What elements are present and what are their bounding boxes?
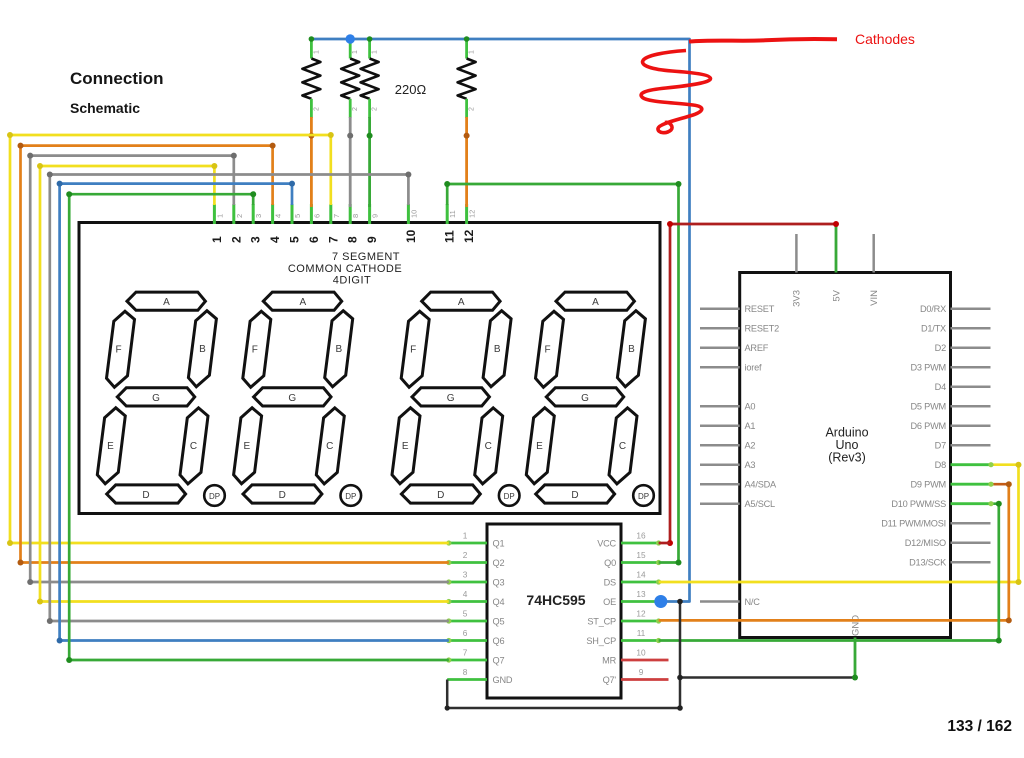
digit 1 segment F	[107, 311, 135, 387]
svg-text:7: 7	[326, 236, 340, 243]
svg-text:9: 9	[365, 236, 379, 243]
svg-text:A5/SCL: A5/SCL	[745, 499, 776, 509]
wire display pin3 to Q7	[69, 194, 449, 660]
svg-text:10: 10	[636, 648, 646, 658]
svg-text:D8: D8	[935, 460, 946, 470]
svg-text:5: 5	[293, 214, 302, 218]
svg-text:14: 14	[636, 570, 646, 580]
svg-text:2: 2	[313, 107, 320, 111]
svg-text:133 / 162: 133 / 162	[947, 718, 1012, 735]
digit 4 decimal point DP	[633, 485, 654, 506]
svg-text:COMMON CATHODE: COMMON CATHODE	[288, 263, 402, 275]
4-digit 7-segment display U2 box	[79, 223, 660, 514]
digit 2 segment E	[234, 408, 262, 484]
big blue dot at OE pin 13	[654, 595, 667, 608]
svg-text:VIN: VIN	[869, 290, 880, 306]
shift register U1 74HC595 box	[487, 524, 621, 698]
svg-text:12: 12	[462, 229, 476, 243]
display pin 4 stub	[271, 204, 274, 224]
svg-text:5V: 5V	[832, 289, 843, 301]
svg-text:A: A	[299, 297, 306, 308]
svg-text:D13/SCK: D13/SCK	[909, 558, 947, 568]
svg-text:2: 2	[463, 550, 468, 560]
svg-text:D6 PWM: D6 PWM	[910, 421, 946, 431]
digit 4 segment A	[556, 292, 634, 310]
digit 4 segment E	[526, 408, 554, 484]
svg-text:A: A	[458, 297, 465, 308]
74HC595 pin 2 Q2	[449, 561, 487, 564]
svg-text:E: E	[107, 441, 114, 452]
svg-text:E: E	[243, 441, 250, 452]
svg-text:16: 16	[636, 531, 646, 541]
wire display pin11 to 74HC595 Q0	[447, 184, 678, 563]
74HC595 pin 6 Q6	[449, 639, 487, 642]
wire DS to Arduino D8 (yellow)	[659, 465, 1019, 582]
svg-text:2: 2	[469, 107, 476, 111]
svg-text:Q7: Q7	[493, 656, 505, 666]
74HC595 pin 8 GND	[447, 678, 487, 681]
digit 2 segment F	[243, 311, 271, 387]
svg-text:C: C	[485, 441, 492, 452]
svg-text:4: 4	[268, 236, 282, 243]
digit 3 segment D	[401, 485, 480, 503]
resistor R3 lower wire to display	[368, 117, 371, 207]
digit 3 segment F	[401, 311, 429, 387]
digit 2 decimal point DP	[341, 485, 362, 506]
svg-text:ioref: ioref	[745, 363, 763, 373]
wire VCC to Arduino 5V (red)	[670, 224, 836, 543]
svg-text:Q7': Q7'	[603, 675, 617, 685]
digit 1 segment A	[127, 292, 205, 310]
svg-text:1: 1	[372, 50, 379, 54]
svg-text:8: 8	[346, 236, 360, 243]
svg-text:6: 6	[307, 236, 321, 243]
svg-text:DP: DP	[345, 492, 356, 501]
svg-text:1: 1	[469, 50, 476, 54]
svg-text:5: 5	[288, 236, 302, 243]
wire SH_CP to Arduino D10 (green)	[659, 504, 999, 641]
Arduino pin AREF	[700, 346, 740, 349]
Arduino pin D13/SCK	[951, 561, 991, 564]
digit 2 segment A	[263, 292, 341, 310]
svg-text:G: G	[152, 393, 160, 404]
wire display pin5 to Q6	[60, 184, 449, 641]
Arduino pin A3	[700, 463, 740, 466]
Arduino pin RESET	[700, 307, 740, 310]
svg-text:Cathodes: Cathodes	[855, 31, 915, 47]
digit 3 decimal point DP	[499, 485, 520, 506]
digit 1 decimal point DP	[204, 485, 225, 506]
svg-text:1: 1	[210, 236, 224, 243]
svg-text:D12/MISO: D12/MISO	[905, 538, 946, 548]
wire display pin7 to Q1	[10, 135, 449, 543]
74HC595 pin 4 Q4	[449, 600, 487, 603]
big blue junction dot at R2	[346, 34, 355, 43]
display pin 9 stub	[368, 204, 371, 224]
svg-text:RESET2: RESET2	[745, 324, 780, 334]
svg-text:G: G	[447, 393, 455, 404]
hand-drawn red cathodes line	[689, 39, 837, 41]
svg-text:Q6: Q6	[493, 636, 505, 646]
svg-text:8: 8	[351, 214, 360, 218]
digit 3 segment G	[412, 388, 489, 406]
display pin 10 stub	[407, 204, 410, 224]
svg-text:4: 4	[274, 214, 283, 218]
wire 74HC595 GND black	[447, 680, 680, 709]
74HC595 pin 12 ST_CP	[621, 620, 659, 623]
svg-text:SH_CP: SH_CP	[586, 636, 616, 646]
74HC595 pin 15 Q0	[621, 561, 659, 564]
Arduino pin D3 PWM	[951, 366, 991, 369]
Arduino pin D8	[951, 463, 992, 466]
Arduino pin D11 PWM/MOSI	[951, 522, 991, 525]
Arduino pin D2	[951, 346, 991, 349]
svg-text:DP: DP	[504, 492, 515, 501]
svg-text:5: 5	[463, 609, 468, 619]
wire display pin2 to Q3	[30, 156, 449, 582]
Arduino pin A1	[700, 424, 740, 427]
resistor R3 220ohm	[368, 39, 371, 59]
svg-text:Q3: Q3	[493, 578, 505, 588]
svg-text:A0: A0	[745, 402, 756, 412]
wire D9 stub orange segment	[991, 483, 1009, 486]
svg-text:C: C	[190, 441, 197, 452]
74HC595 pin 11 SH_CP	[621, 639, 659, 642]
svg-text:D9 PWM: D9 PWM	[910, 480, 946, 490]
display pin 3 stub	[252, 204, 255, 224]
svg-text:1: 1	[463, 531, 468, 541]
svg-text:DP: DP	[638, 492, 649, 501]
svg-text:A3: A3	[745, 460, 756, 470]
digit 1 segment C	[180, 408, 208, 484]
svg-text:3: 3	[463, 570, 468, 580]
wire Arduino GND to ground black	[680, 676, 855, 679]
Arduino Uno U3 box	[740, 273, 951, 638]
svg-text:3: 3	[249, 236, 263, 243]
svg-text:D7: D7	[935, 441, 946, 451]
Arduino pin ioref	[700, 366, 740, 369]
digit 2 segment B	[325, 311, 353, 387]
svg-text:9: 9	[371, 214, 380, 218]
digit 3 segment B	[483, 311, 511, 387]
svg-text:B: B	[494, 344, 501, 355]
svg-text:D2: D2	[935, 343, 946, 353]
svg-text:1: 1	[352, 50, 359, 54]
Arduino pin D1/TX	[951, 327, 991, 330]
svg-text:OE: OE	[603, 597, 616, 607]
Arduino pin 5V	[835, 224, 838, 273]
svg-text:9: 9	[639, 667, 644, 677]
Arduino pin D0/RX	[951, 307, 991, 310]
Arduino pin D4	[951, 385, 991, 388]
junction dots on rail	[309, 36, 315, 42]
wire display pin1 to Q4	[40, 166, 449, 602]
svg-text:B: B	[335, 344, 342, 355]
resistor R2 lower wire to display	[349, 117, 352, 207]
74HC595 pin 13 OE	[621, 600, 659, 603]
svg-text:Q1: Q1	[493, 539, 505, 549]
Arduino pin D7	[951, 444, 991, 447]
digit 4 segment F	[536, 311, 564, 387]
wire VCC red stub	[659, 542, 670, 545]
display pin 2 stub	[232, 204, 235, 224]
svg-text:3V3: 3V3	[792, 290, 803, 307]
svg-text:D1/TX: D1/TX	[921, 324, 946, 334]
Arduino pin GND	[854, 638, 857, 678]
svg-text:D: D	[142, 490, 149, 501]
resistor R4 lower wire to display	[465, 117, 468, 207]
svg-text:F: F	[115, 345, 121, 356]
svg-text:B: B	[199, 344, 206, 355]
svg-text:2: 2	[235, 214, 244, 218]
wire OE to ground black vertical	[679, 602, 682, 709]
svg-text:GND: GND	[851, 615, 862, 636]
svg-text:A: A	[163, 297, 170, 308]
svg-text:6: 6	[312, 214, 321, 218]
svg-text:RESET: RESET	[745, 304, 775, 314]
74HC595 pin 10 MR	[621, 659, 669, 662]
svg-text:A: A	[592, 297, 599, 308]
svg-text:D: D	[571, 490, 578, 501]
svg-text:13: 13	[636, 589, 646, 599]
svg-text:AREF: AREF	[745, 343, 769, 353]
digit 3 segment E	[392, 408, 420, 484]
digit 1 segment D	[107, 485, 186, 503]
svg-text:12: 12	[636, 609, 646, 619]
svg-text:7: 7	[463, 648, 468, 658]
display pin 6 stub	[310, 204, 313, 224]
svg-text:B: B	[628, 344, 635, 355]
svg-text:A2: A2	[745, 441, 756, 451]
digit 1 segment B	[188, 311, 216, 387]
svg-text:F: F	[252, 345, 258, 356]
74HC595 pin 7 Q7	[449, 659, 487, 662]
display pin 12 stub	[465, 204, 468, 224]
svg-text:10: 10	[404, 229, 418, 243]
svg-text:4DIGIT: 4DIGIT	[333, 275, 371, 287]
74HC595 pin 9 Q7'	[621, 678, 669, 681]
svg-text:Q0: Q0	[604, 558, 616, 568]
display pin 5 stub	[291, 204, 294, 224]
Arduino pin N/C	[700, 600, 740, 603]
svg-text:10: 10	[409, 210, 418, 218]
svg-text:D: D	[437, 490, 444, 501]
74HC595 pin 3 Q3	[449, 581, 487, 584]
svg-text:VCC: VCC	[597, 539, 616, 549]
svg-text:2: 2	[352, 107, 359, 111]
digit 2 segment G	[254, 388, 331, 406]
svg-text:E: E	[402, 441, 409, 452]
svg-text:4: 4	[463, 589, 468, 599]
74HC595 pin 1 Q1	[449, 542, 487, 545]
svg-text:8: 8	[463, 667, 468, 677]
svg-text:ST_CP: ST_CP	[587, 617, 616, 627]
display pin 8 stub	[349, 204, 352, 224]
Arduino pin D12/MISO	[951, 541, 991, 544]
svg-text:2: 2	[372, 107, 379, 111]
svg-text:74HC595: 74HC595	[526, 592, 585, 608]
svg-text:220Ω: 220Ω	[395, 82, 427, 97]
svg-text:1: 1	[215, 214, 224, 218]
svg-text:DP: DP	[209, 492, 220, 501]
Arduino pin A0	[700, 405, 740, 408]
svg-text:(Rev3): (Rev3)	[828, 451, 866, 465]
svg-text:D11 PWM/MOSI: D11 PWM/MOSI	[881, 519, 946, 529]
svg-text:12: 12	[468, 210, 477, 218]
Arduino pin D10 PWM/SS	[951, 502, 992, 505]
digit 1 segment E	[97, 408, 125, 484]
Arduino pin A5/SCL	[700, 502, 740, 505]
svg-text:3: 3	[254, 214, 263, 218]
display pin 11 stub	[446, 204, 449, 224]
Arduino pin D5 PWM	[951, 405, 991, 408]
svg-text:Q2: Q2	[493, 558, 505, 568]
Arduino pin A4/SDA	[700, 483, 740, 486]
Arduino pin 3V3	[795, 234, 798, 273]
resistor R4 220ohm	[465, 39, 468, 59]
svg-text:D: D	[279, 490, 286, 501]
wire blue cathode rail to OE	[311, 39, 689, 602]
svg-text:11: 11	[443, 230, 457, 243]
svg-text:D3 PWM: D3 PWM	[910, 363, 946, 373]
svg-text:6: 6	[463, 628, 468, 638]
svg-text:11: 11	[637, 628, 646, 638]
digit 2 segment D	[243, 485, 322, 503]
svg-text:7: 7	[332, 214, 341, 218]
digit 3 segment C	[475, 408, 503, 484]
svg-text:2: 2	[229, 236, 243, 243]
svg-text:Schematic: Schematic	[70, 100, 140, 116]
display pin 1 stub	[213, 204, 216, 224]
digit 4 segment G	[546, 388, 623, 406]
Arduino pin VIN	[872, 234, 875, 273]
digit 1 segment G	[117, 388, 194, 406]
Arduino pin D6 PWM	[951, 424, 991, 427]
svg-text:C: C	[619, 441, 626, 452]
digit 4 segment D	[536, 485, 615, 503]
wire display pin4 to Q2	[21, 146, 449, 563]
74HC595 pin 14 DS	[621, 581, 659, 584]
svg-text:C: C	[326, 441, 333, 452]
svg-text:F: F	[410, 345, 416, 356]
svg-text:D4: D4	[935, 382, 946, 392]
svg-text:D5 PWM: D5 PWM	[910, 402, 946, 412]
display pin 7 stub	[329, 204, 332, 224]
svg-text:G: G	[581, 393, 589, 404]
74HC595 pin 16 VCC	[621, 542, 659, 545]
digit 4 segment B	[617, 311, 645, 387]
svg-text:Q4: Q4	[493, 597, 505, 607]
resistor R1 lower wire to display	[310, 117, 313, 207]
resistor R1 220ohm	[310, 39, 313, 59]
hand-drawn red squiggle	[641, 51, 710, 133]
svg-text:Q5: Q5	[493, 617, 505, 627]
Arduino pin RESET2	[700, 327, 740, 330]
svg-text:11: 11	[448, 210, 457, 218]
wire ST_CP to Arduino D9 (orange)	[659, 484, 1009, 620]
svg-text:7 SEGMENT: 7 SEGMENT	[332, 251, 400, 263]
svg-text:DS: DS	[604, 578, 616, 588]
svg-text:D10 PWM/SS: D10 PWM/SS	[891, 499, 946, 509]
svg-text:N/C: N/C	[745, 597, 761, 607]
74HC595 pin 5 Q5	[449, 620, 487, 623]
svg-text:F: F	[544, 345, 550, 356]
digit 2 segment C	[316, 408, 344, 484]
svg-text:15: 15	[636, 550, 646, 560]
svg-text:MR: MR	[602, 656, 616, 666]
svg-text:Connection: Connection	[70, 69, 164, 88]
svg-text:A1: A1	[745, 421, 756, 431]
Arduino pin A2	[700, 444, 740, 447]
svg-text:GND: GND	[493, 675, 513, 685]
svg-text:A4/SDA: A4/SDA	[745, 480, 778, 490]
wire display pin10 to Q5	[50, 175, 449, 622]
Arduino pin D9 PWM	[951, 483, 992, 486]
digit 3 segment A	[422, 292, 500, 310]
svg-text:D0/RX: D0/RX	[920, 304, 946, 314]
svg-text:1: 1	[313, 50, 320, 54]
digit 4 segment C	[609, 408, 637, 484]
svg-text:G: G	[288, 393, 296, 404]
resistor R2 220ohm	[349, 39, 352, 59]
svg-text:E: E	[536, 441, 543, 452]
